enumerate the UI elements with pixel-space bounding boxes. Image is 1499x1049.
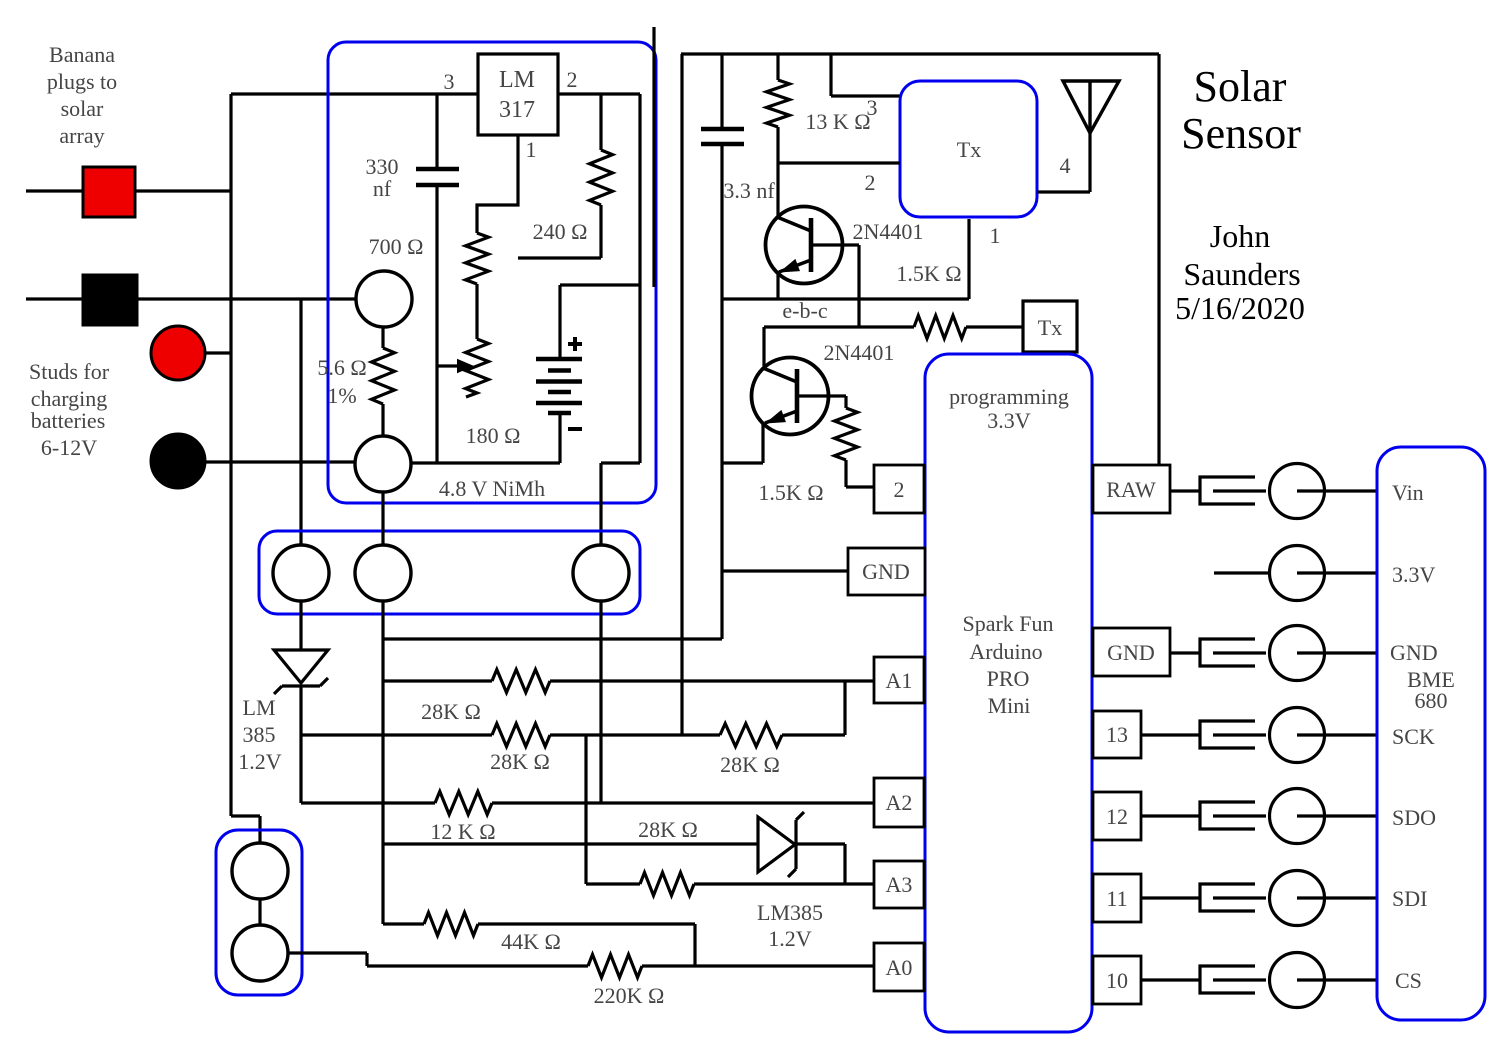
svg-text:SCK: SCK [1392,724,1435,749]
wire top rail y54 [681,52,1159,55]
capacitor C2 3.3nf plates [701,127,744,132]
svg-text:5/16/2020: 5/16/2020 [1175,290,1305,326]
wire R13 to Tx data [966,325,1023,328]
wire A1 row left [383,679,492,682]
zener diode D1 LM385 [274,650,328,683]
wire base row y327 [764,325,914,328]
wire left vertical bus [229,94,232,816]
svg-text:240 Ω: 240 Ω [533,219,588,244]
wire LM317 pin1 jog [477,135,518,233]
wire rail jog to node C [601,461,640,464]
wire 28K row middle [550,733,720,736]
wire 28K row right [782,733,845,736]
resistor R8 12K [435,792,492,815]
svg-text:13: 13 [1106,722,1128,747]
wire black stud to node [205,460,356,463]
svg-text:A3: A3 [886,872,913,897]
wire pin to plug GND [1170,651,1200,654]
wire D2 to A3 branch [795,842,845,845]
svg-text:RAW: RAW [1106,477,1156,502]
wire Tx pin1 drop [967,219,970,299]
prog jack circle bottom [232,925,288,981]
svg-text:680: 680 [1415,688,1448,713]
wire C2 bottom bus x722 [720,144,723,639]
wire gnd to GND pin [722,569,848,572]
resistor R3 240 ohm [590,150,613,205]
stud black (charging -) [151,434,205,488]
svg-text:12 K Ω: 12 K Ω [430,819,495,844]
wire R1 to pot [475,284,478,339]
wire connector3 down x601 [599,601,602,803]
module Tx transmitter (blue box) [900,81,1037,217]
connector circle 3.3V [1270,546,1325,601]
module BME680 (blue box) [1377,447,1485,1020]
svg-text:1.5K Ω: 1.5K Ω [758,480,823,505]
svg-text:CS: CS [1395,968,1422,993]
wire Tx pin2 [778,161,900,164]
wire D2 row left [383,842,758,845]
svg-text:nf: nf [373,176,392,201]
wire black jack to node [137,297,357,300]
banana plug jack red (solar +) [83,167,135,217]
svg-text:plugs to: plugs to [47,69,117,94]
connector circle SDO [1270,789,1325,844]
wire C1 top lead [435,94,438,169]
wire connector1 to zener D1 [299,601,302,650]
banana plug jack black (solar -) [83,275,137,325]
pin box A1 [874,657,924,703]
svg-text:4: 4 [1060,153,1071,178]
svg-text:3.3V: 3.3V [987,408,1031,433]
svg-text:2: 2 [567,67,578,92]
svg-text:GND: GND [1390,640,1438,665]
svg-text:Saunders: Saunders [1183,256,1300,292]
pin box 11 [1093,874,1141,922]
svg-text:Studs for: Studs for [29,359,110,384]
svg-text:44K Ω: 44K Ω [501,929,561,954]
plug connector SCK [1200,721,1255,748]
wire D1 down x301 [299,686,302,803]
svg-text:SDI: SDI [1392,886,1427,911]
svg-text:e-b-c: e-b-c [782,298,827,323]
wire R12 top lead [776,54,779,80]
pin box GND right [1093,628,1170,676]
wire pin to plug SDI [1141,896,1200,899]
enclosure connector strip (blue box) [259,531,640,614]
connector circle SCK [1270,708,1325,763]
wire mystery stub x654 [652,27,655,287]
pin box A3 [874,861,924,908]
wire solar array - lead-in [26,297,83,300]
resistor R1 700 ohm [466,233,489,284]
pin box 13 [1093,711,1141,758]
connector circle 2 [355,545,411,601]
wire red stud to left bus [205,351,231,354]
wire node B to connector 2 [381,492,384,545]
connector circle SDI [1270,871,1325,926]
wire R3 bottom lead [599,205,602,258]
svg-text:2N4401: 2N4401 [853,219,924,244]
battery - sign [568,427,582,431]
connector circle 1 [273,545,329,601]
svg-text:LM385: LM385 [757,900,823,925]
svg-text:Solar: Solar [1194,62,1287,111]
battery + sign [573,337,577,351]
svg-text:batteries: batteries [31,408,106,433]
wire A1 row right [550,679,874,682]
svg-text:Banana: Banana [49,42,115,67]
wire circle to BME GND [1297,651,1377,654]
wire jack bottom out [288,951,367,954]
svg-text:11: 11 [1106,886,1127,911]
svg-text:A0: A0 [886,955,913,980]
resistor R11 220K [588,955,642,978]
svg-text:28K Ω: 28K Ω [638,817,698,842]
svg-text:385: 385 [243,722,276,747]
svg-text:317: 317 [499,97,535,123]
resistor R7 28K [720,724,782,747]
wire circle to BME CS [1297,978,1377,981]
wire e-b-c row y299 [722,297,969,300]
svg-text:6-12V: 6-12V [41,435,97,460]
plug connector SDI [1200,884,1255,911]
pin box 12 [1093,792,1141,840]
wire pin to plug SCK [1141,733,1200,736]
wire A2 row right [492,801,874,804]
wire A0 row left [367,964,588,967]
plug connector SDO [1200,802,1255,829]
wire pin to plug Vin [1170,489,1200,492]
wire circle to BME SDO [1297,814,1377,817]
resistor R9 28K (A3) [640,873,694,896]
svg-text:GND: GND [1107,640,1155,665]
wire stub 3.3V [1214,571,1269,574]
svg-text:programming: programming [949,384,1069,409]
svg-text:1.2V: 1.2V [238,749,282,774]
connector circle CS [1270,953,1325,1008]
wire Q2 base lead [762,327,765,368]
pin box 2 [874,465,924,513]
wire R14 to pin 2 [844,460,847,487]
wire solar array + lead-in [26,189,83,192]
svg-text:John: John [1210,218,1270,254]
svg-text:2: 2 [894,477,905,502]
wire LM317 output to right rail [558,92,640,95]
node circle A (solar node) [356,271,412,327]
plug connector Vin [1200,477,1255,504]
svg-text:3: 3 [867,95,878,120]
wire 44K row right [478,922,695,925]
wire 44K row left [383,922,424,925]
svg-text:SDO: SDO [1392,805,1436,830]
svg-text:Tx: Tx [957,137,981,162]
svg-text:3: 3 [444,69,455,94]
resistor R6 28K [492,724,550,747]
wire C1 bottom lead [435,185,438,463]
regulator U1 LM317 box [478,54,558,135]
svg-text:1%: 1% [327,383,356,408]
svg-text:4.8 V NiMh: 4.8 V NiMh [439,476,545,501]
pin box A2 [874,778,924,827]
resistor R4 5.6 ohm 1% [372,348,395,404]
antenna ANT1 [1063,81,1119,133]
wire A3 drop x586 [584,735,587,884]
wire node A to R4 [381,327,384,348]
wire node B to battery - [411,461,560,464]
connector circle Vin [1270,464,1325,519]
wire battery + lead [558,285,561,359]
svg-text:Arduino: Arduino [969,639,1042,664]
svg-text:array: array [59,123,104,148]
svg-text:2N4401: 2N4401 [824,340,895,365]
wire battery - lead [558,413,561,463]
plug connector GND [1200,639,1255,666]
resistor R5 28K (A1) [492,670,550,693]
wire A1 branch down x845 [843,681,846,735]
svg-text:Sensor: Sensor [1181,109,1301,158]
svg-text:LM: LM [243,695,276,720]
wire gnd net y639 [383,637,722,640]
resistor R13 1.5K (Q1 base) [914,316,966,339]
plug connector CS [1200,966,1255,993]
wire right rail x640 [638,94,641,463]
svg-text:solar: solar [61,96,104,121]
svg-text:10: 10 [1106,968,1128,993]
potentiometer R2 180 ohm [466,339,489,397]
pot wiper arrow [437,364,459,367]
svg-text:220K Ω: 220K Ω [594,983,665,1008]
prog jack circle top [232,843,288,899]
wire left bus to prog jack [231,814,260,817]
svg-text:Tx: Tx [1038,315,1062,340]
enclosure programming jack (blue box) [216,830,302,995]
svg-text:LM: LM [499,67,535,93]
svg-text:Mini: Mini [988,693,1031,718]
svg-text:13 K Ω: 13 K Ω [805,109,870,134]
svg-text:2: 2 [865,170,876,195]
wire top rail to RAW [1157,54,1160,465]
stud red (charging +) [151,326,205,380]
pin box GND left [848,548,925,595]
svg-text:1: 1 [990,223,1001,248]
wire rail drop x682 [680,54,683,735]
wire Q2 collector to R14 [844,396,847,408]
node circle B (battery node) [355,436,411,492]
module Tx data box [1023,301,1077,352]
wire vertical node x301 upper [299,299,302,545]
enclosure regulator board (blue box) [328,42,656,503]
wire Tx pin3 [829,54,832,96]
wire Tx pin4 to antenna [1037,190,1090,193]
wire circle to BME Vin [1297,489,1377,492]
svg-text:Vin: Vin [1392,480,1424,505]
wire red jack to left bus [135,189,231,192]
wire A2 row left [301,801,435,804]
svg-text:Spark Fun: Spark Fun [962,611,1053,636]
wire pin to plug SDO [1141,814,1200,817]
wire R3 top lead [599,94,602,150]
svg-text:PRO: PRO [987,666,1030,691]
svg-text:180 Ω: 180 Ω [466,423,521,448]
wire between jack circles [258,899,261,925]
wire C2 top lead [720,54,723,129]
module SparkFun Arduino Pro Mini (blue box) [925,354,1092,1032]
connector circle 3 [573,545,629,601]
svg-text:3.3 nf: 3.3 nf [723,178,775,203]
wire A3 row right [694,882,874,885]
wire circle to BME 3.3V [1297,571,1377,574]
wire R12 bottom / Q1 base lead [776,127,779,217]
pin box RAW [1093,465,1170,513]
wire Q1 emitter drop [776,271,779,299]
wire Q1 collector drop [857,245,860,327]
resistor R12 13K [767,80,790,127]
zener diode D2 LM385 [758,817,795,872]
wire connector2 down bus x383 [381,601,384,924]
transistor Q2 2N4401 [752,358,829,435]
svg-text:28K Ω: 28K Ω [490,749,550,774]
svg-text:A1: A1 [886,668,913,693]
svg-text:3.3V: 3.3V [1392,562,1436,587]
wire circle to BME SDI [1297,896,1377,899]
svg-text:12: 12 [1106,804,1128,829]
svg-text:28K Ω: 28K Ω [421,699,481,724]
battery BT1 4.8V NiMh plates [536,357,582,362]
connector circle GND [1270,626,1325,681]
wire A0 row right [642,964,874,967]
resistor R14 1.5K (Q2) [835,408,858,460]
transistor Q1 2N4401 [766,207,843,284]
wire Q2 emitter to gnd bus [722,461,763,464]
capacitor C1 330nf plates [416,167,459,172]
wire pin1 to R3 bottom [518,256,601,259]
pin box A0 [874,943,924,991]
wire Q2 emitter drop [761,423,764,463]
svg-text:1: 1 [526,137,537,162]
wire battery + to rail [560,283,640,286]
svg-text:5.6 Ω: 5.6 Ω [317,355,366,380]
svg-text:700 Ω: 700 Ω [369,234,424,259]
svg-text:GND: GND [862,559,910,584]
wire top horizontal to LM317 pin3 [231,92,478,95]
svg-text:28K Ω: 28K Ω [720,752,780,777]
svg-text:1.2V: 1.2V [768,926,812,951]
pin box 10 [1093,956,1141,1004]
wire pin to plug CS [1141,978,1200,981]
wire 28K row left [301,733,492,736]
wire A3 row left [586,882,640,885]
resistor R10 44K [424,913,478,936]
wire circle to BME SCK [1297,733,1377,736]
svg-text:A2: A2 [886,790,913,815]
wire R4 to node B [381,404,384,436]
svg-text:1.5K Ω: 1.5K Ω [896,261,961,286]
